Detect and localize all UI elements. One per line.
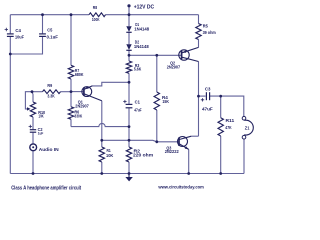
svg-text:C5: C5 — [47, 28, 52, 34]
svg-text:47K: 47K — [225, 125, 232, 131]
node R4 bottom — [155, 140, 158, 143]
resistor R2 220 ohm — [126, 147, 131, 162]
svg-text:2N2222: 2N2222 — [165, 149, 179, 155]
svg-text:Class A headphone amplifier ci: Class A headphone amplifier circuit — [11, 186, 81, 192]
wire supply chain D1 D2 R3 — [128, 15, 130, 83]
svg-text:680K: 680K — [75, 72, 84, 78]
svg-text:47uF: 47uF — [134, 107, 141, 113]
wire R5 top lead — [198, 15, 200, 24]
wire R4 branch — [156, 55, 158, 142]
Audio IN terminal — [30, 144, 37, 151]
node Q2 collector C3 — [197, 95, 200, 98]
svg-text:47uF: 47uF — [202, 107, 213, 113]
resistor R9 3.3K — [43, 90, 61, 94]
wire Q1 collector down to R1 — [101, 101, 103, 141]
svg-text:2N2907: 2N2907 — [167, 64, 181, 70]
resistor R11 47K — [218, 118, 223, 136]
svg-text:220 ohm: 220 ohm — [133, 153, 154, 159]
wire Q2 collector line down to Q3 corner — [198, 62, 200, 137]
wire Z1 bottom terminal to rail — [243, 139, 245, 173]
svg-text:R11: R11 — [226, 118, 235, 124]
svg-text:39 ohm: 39 ohm — [203, 30, 217, 36]
wire Q2 base feed — [129, 54, 181, 56]
svg-text:15K: 15K — [162, 99, 169, 105]
capacitor C4 10uF — [7, 34, 14, 37]
wire C5 top lead — [42, 15, 44, 34]
node top rail supply — [128, 13, 131, 16]
node top rail R7 — [70, 13, 73, 16]
node diode bottom Q2 base — [128, 54, 131, 57]
svg-text:R5: R5 — [203, 24, 208, 30]
node top rail C5 — [41, 13, 44, 16]
node R3 C1 Q1 emitter — [128, 81, 131, 84]
wire R6 bottom to C1 node with hop over collector line — [71, 123, 129, 126]
wire Q3 emitter down to rail — [188, 149, 190, 173]
svg-text:C1: C1 — [135, 100, 141, 106]
capacitor C3 47uF output — [206, 92, 209, 100]
node 12V terminal — [127, 4, 130, 7]
wire R9 right lead — [61, 91, 72, 93]
svg-text:5.6K: 5.6K — [134, 67, 142, 73]
headphone jack Z1 — [244, 120, 253, 135]
wire +12V supply stub — [128, 6, 130, 15]
wire Q1 base from bias node — [71, 91, 83, 93]
node left rail cap return — [9, 53, 12, 56]
wire R1 leads — [101, 140, 103, 173]
wire R7 R6 bias chain — [70, 15, 72, 127]
wire volume pot C2 audio jack line — [32, 92, 33, 174]
resistor R3 5.6K — [126, 61, 131, 73]
node Q1 base bias — [70, 90, 73, 93]
node rail R11 — [219, 172, 222, 175]
wire R9 left lead — [32, 91, 43, 93]
node Q1 collector R1 — [100, 139, 103, 142]
svg-text:330K: 330K — [74, 114, 82, 120]
capacitor C1 47uF — [126, 104, 133, 107]
wire top rail left section — [10, 14, 89, 16]
diode D2 1N4148 — [126, 44, 131, 50]
svg-text:+12V DC: +12V DC — [134, 5, 154, 11]
potentiometer wiper arrow of R10 — [27, 107, 31, 110]
svg-text:Z1: Z1 — [245, 125, 250, 131]
svg-text:Audio IN: Audio IN — [39, 147, 59, 153]
resistor R1 10K — [99, 147, 104, 162]
capacitor C5 0.1uF — [39, 34, 46, 37]
node rail audio gnd — [32, 172, 35, 175]
svg-text:1uF: 1uF — [38, 131, 44, 136]
diode D1 1N4148 — [126, 26, 131, 32]
svg-text:10K: 10K — [106, 153, 114, 159]
svg-text:3.3K: 3.3K — [47, 94, 55, 100]
wire Q3 collector corner — [191, 135, 198, 137]
wire C3 right lead to R11 Z1 node — [210, 96, 244, 116]
svg-text:1N4148: 1N4148 — [134, 26, 149, 32]
svg-text:1N4148: 1N4148 — [134, 44, 149, 50]
transistor Q1 2N2907 — [82, 86, 102, 101]
wire pot wiper bracket — [25, 92, 32, 109]
svg-text:R9: R9 — [47, 83, 52, 89]
svg-text:R8: R8 — [93, 5, 97, 11]
wire C3 left lead — [199, 95, 206, 97]
node R2 top — [128, 139, 131, 142]
wire bottom ground rail — [10, 173, 244, 175]
wire output base bus to Q3 — [102, 140, 179, 142]
resistor R4 15K — [154, 92, 159, 110]
capacitor C2 input coupling — [30, 130, 36, 133]
wire left rail ground return — [9, 15, 11, 174]
svg-text:10K: 10K — [39, 114, 45, 119]
wire node A to C1 and R2 — [128, 82, 130, 173]
node rail R1 — [100, 172, 103, 175]
wire R11 leads — [220, 96, 222, 173]
svg-text:C4: C4 — [15, 28, 21, 34]
svg-text:10uF: 10uF — [15, 34, 24, 40]
node C3 R11 — [219, 95, 222, 98]
wire R5 bottom to Q2 emitter corner — [198, 40, 200, 48]
node rail R2 gnd — [128, 172, 131, 175]
svg-text:2N2907: 2N2907 — [75, 103, 89, 109]
svg-text:C3: C3 — [205, 86, 211, 92]
ground symbol — [128, 174, 130, 179]
node R4 top — [155, 54, 158, 57]
node rail Q3 emitter — [187, 172, 190, 175]
node R6 feedback C1 bottom — [128, 125, 131, 128]
resistor R6 330K — [68, 107, 73, 119]
svg-text:www.circuitstoday.com: www.circuitstoday.com — [158, 185, 205, 191]
resistor R10 10K pot — [30, 102, 35, 117]
node pot top — [31, 90, 34, 93]
resistor R8 100K — [89, 13, 106, 17]
transistor Q2 2N2907 — [179, 47, 199, 61]
wire Q1 emitter route to node A — [92, 82, 129, 86]
wire top rail right section — [106, 14, 199, 16]
svg-text:0.1uF: 0.1uF — [47, 35, 59, 41]
wire C4 C5 bottom connecting wire — [10, 37, 42, 54]
resistor R5 39 ohm — [196, 24, 201, 40]
transistor Q3 2N2222 — [178, 136, 192, 149]
resistor R7 680K — [68, 65, 73, 79]
svg-text:100K: 100K — [92, 17, 100, 23]
